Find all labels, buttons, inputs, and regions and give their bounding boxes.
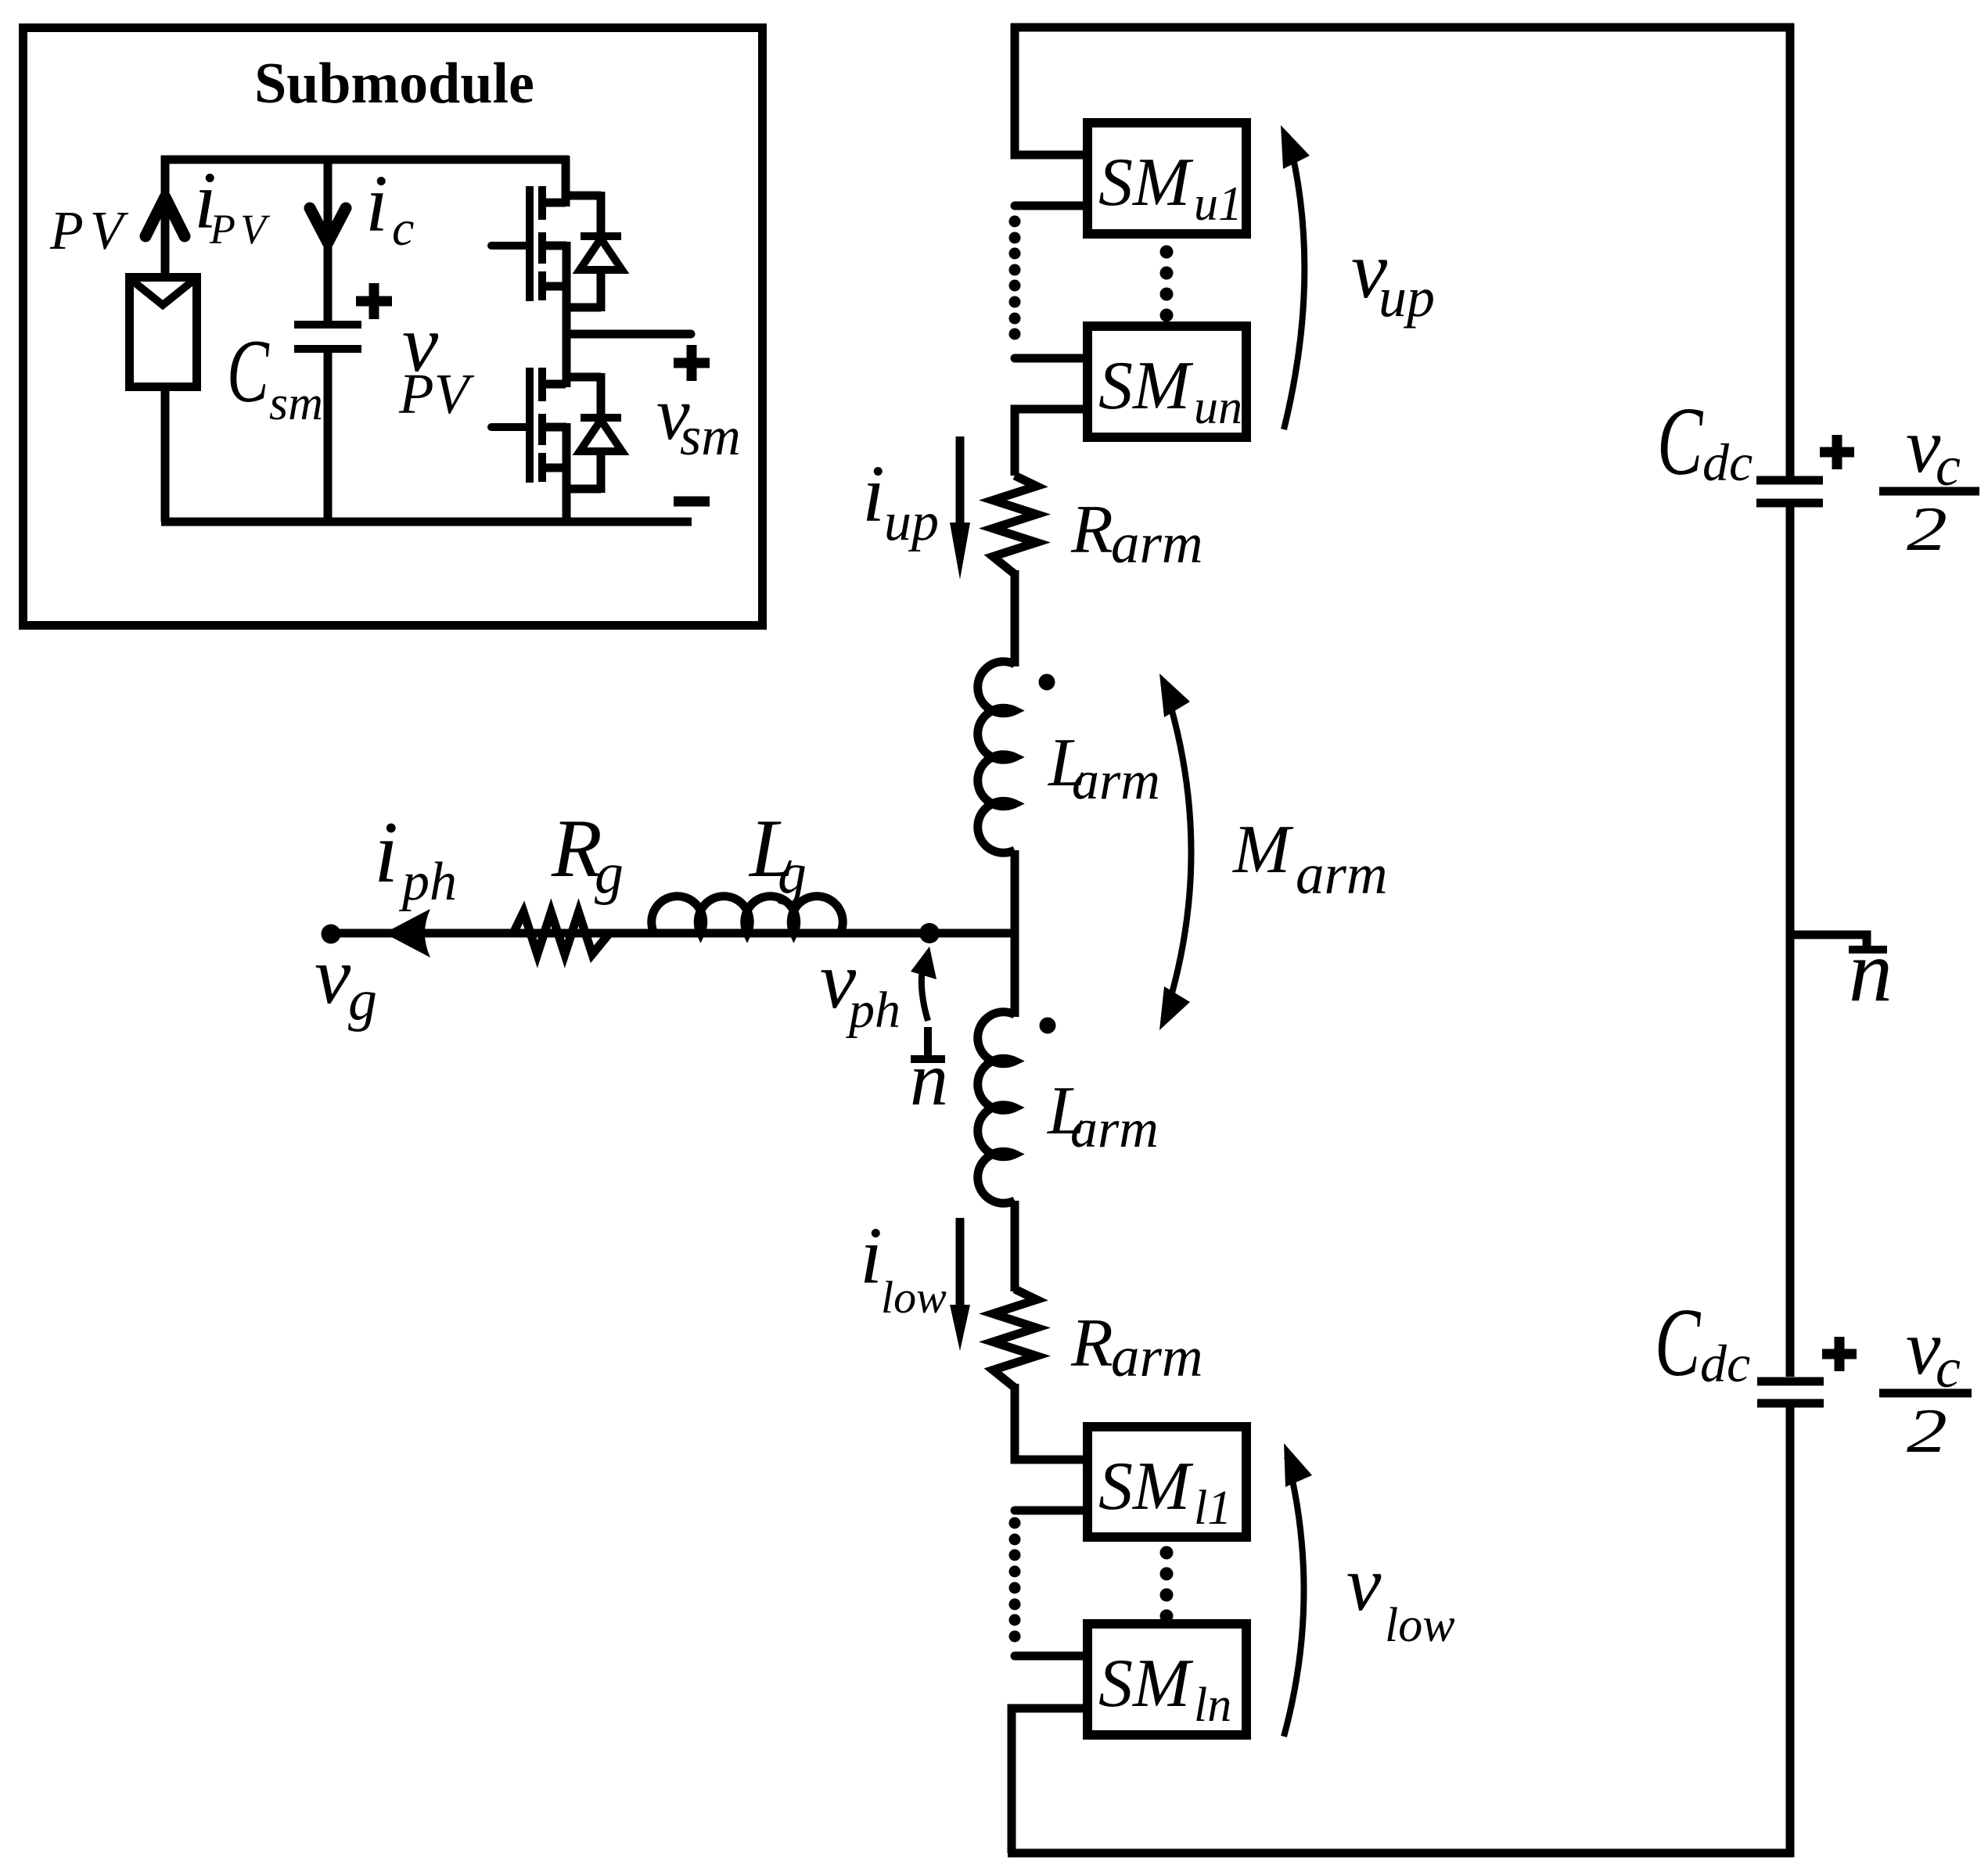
svg-text:n: n [910, 1037, 948, 1122]
wire phase output branch [331, 929, 1019, 938]
arrow i_low [956, 1218, 965, 1330]
wire R_arm lower to SM_l1 [1015, 1384, 1083, 1460]
svg-text:l1: l1 [1194, 1482, 1231, 1535]
node v_g terminal dot [322, 925, 341, 944]
wire bottom DC bus [1008, 1849, 1794, 1858]
dotted wire upper-left column [1009, 216, 1021, 228]
svg-text:arm: arm [1111, 512, 1203, 575]
diode D2 lower body diode [566, 373, 601, 382]
svg-text:Submodule: Submodule [254, 52, 534, 116]
svg-text:v: v [315, 931, 351, 1021]
transistor Q2 lower MOSFET [526, 368, 534, 483]
svg-text:R: R [1070, 1306, 1113, 1381]
resistor R_g [513, 912, 609, 954]
diode D1 upper body diode [566, 192, 601, 200]
PV source box [130, 278, 197, 387]
svg-text:g: g [778, 842, 807, 906]
wire phase node down to L_arm lower [1011, 933, 1019, 1017]
minus sign v_sm [674, 497, 710, 507]
wire from top bus down to SM_u1 [1015, 23, 1083, 155]
svg-text:i: i [860, 1211, 883, 1301]
svg-text:up: up [1379, 266, 1435, 329]
svg-text:low: low [1385, 1599, 1455, 1652]
wire v_sm output tap [566, 330, 691, 339]
inductor L_g [652, 896, 843, 933]
resistor R_arm upper [993, 476, 1037, 574]
svg-text:up: up [884, 492, 939, 552]
dotted wire lower-left column [1009, 1517, 1021, 1529]
svg-text:dc: dc [1702, 433, 1753, 492]
submodule inset box [23, 28, 763, 626]
inductor L_arm lower [978, 1012, 1015, 1204]
svg-text:ph: ph [398, 852, 457, 912]
svg-text:v: v [1346, 1540, 1382, 1627]
wire SM_un lower terminal to R_arm [1015, 409, 1083, 476]
wire L_arm lower to R_arm lower [1011, 1201, 1019, 1291]
svg-text:arm: arm [1296, 842, 1388, 906]
submodule SM_un [1087, 326, 1246, 437]
svg-text:g: g [595, 842, 624, 906]
svg-text:g: g [348, 968, 377, 1033]
svg-text:dc: dc [1700, 1334, 1750, 1393]
svg-text:ln: ln [1194, 1679, 1231, 1732]
capacitor C_dc lower [1757, 1377, 1824, 1386]
wire R_arm to L_arm upper [1011, 570, 1019, 666]
capacitor C_sm [294, 321, 361, 329]
arrow i_PV head [146, 197, 185, 236]
svg-text:C: C [1657, 388, 1703, 496]
svg-text:PV: PV [398, 362, 475, 426]
svg-text:arm: arm [1111, 1325, 1203, 1388]
dots between SM_u1 and SM_un [1160, 246, 1174, 259]
svg-text:i: i [862, 449, 885, 539]
svg-text:ph: ph [846, 982, 901, 1039]
ground n mid symbol [924, 1027, 932, 1056]
svg-text:arm: arm [1070, 1099, 1159, 1159]
wire stub SM_l1 lower terminal [1015, 1507, 1083, 1515]
svg-text:un: un [1194, 381, 1242, 434]
wire top DC bus [1011, 23, 1794, 32]
wire right DC bus middle segment [1786, 507, 1795, 1377]
wire right DC bus lower segment [1786, 1407, 1795, 1857]
wire lower source to bottom rail [563, 489, 571, 522]
resistor R_arm lower [993, 1289, 1037, 1388]
svg-text:SM: SM [1098, 1646, 1194, 1722]
svg-text:C: C [227, 322, 270, 421]
wire PV branch left vertical lower [161, 387, 170, 522]
plus sign v_sm [674, 358, 710, 368]
svg-text:sm: sm [680, 407, 741, 467]
node n stub on right bus [1790, 935, 1867, 946]
svg-text:c: c [392, 200, 414, 256]
wire midpoint vertical [563, 307, 571, 387]
svg-text:sm: sm [269, 377, 323, 430]
plus sign v_PV [356, 296, 392, 307]
wire stub SM_u1 lower terminal [1015, 202, 1083, 210]
svg-text:PV: PV [49, 201, 130, 261]
svg-text:i: i [365, 159, 388, 249]
arrow v_low curved [1284, 1456, 1304, 1737]
svg-text:PV: PV [209, 206, 271, 253]
svg-text:2: 2 [1907, 1396, 1947, 1466]
svg-text:M: M [1231, 812, 1294, 888]
dot polarity mark lower L_arm [1040, 1018, 1056, 1034]
svg-text:2: 2 [1907, 494, 1947, 564]
wire SM_ln lower terminal to bottom bus [1012, 1708, 1083, 1853]
svg-text:SM: SM [1098, 1449, 1194, 1525]
wire inset top rail [161, 156, 569, 164]
svg-text:SM: SM [1098, 145, 1194, 221]
arrow i_c head [310, 208, 346, 242]
submodule SM_ln [1087, 1624, 1246, 1735]
svg-text:u1: u1 [1194, 178, 1242, 231]
transistor Q1 upper MOSFET [526, 186, 534, 301]
node v_ph dot [919, 923, 940, 943]
arrow v_up curved [1284, 141, 1304, 429]
submodule SM_l1 [1087, 1427, 1246, 1537]
svg-text:C: C [1655, 1289, 1701, 1397]
svg-text:low: low [881, 1272, 947, 1323]
submodule SM_u1 [1087, 123, 1246, 234]
wire capacitor C_sm branch upper [324, 160, 333, 321]
svg-text:R: R [1070, 492, 1113, 568]
dot polarity mark upper L_arm [1039, 674, 1055, 691]
wire inset bottom rail [161, 518, 692, 526]
inductor L_arm upper [978, 662, 1015, 853]
svg-text:i: i [374, 804, 398, 901]
arrow v_ph small curved [922, 957, 928, 1021]
arrow i_ph head [385, 910, 430, 957]
plus sign lower C_dc [1822, 1349, 1857, 1359]
svg-text:SM: SM [1098, 348, 1194, 424]
wire right DC bus upper segment [1786, 23, 1795, 476]
dots between SM_l1 and SM_ln [1160, 1546, 1174, 1560]
plus sign upper C_dc [1820, 447, 1854, 458]
svg-text:n: n [1849, 923, 1893, 1020]
wire L_arm upper to phase node [1011, 850, 1019, 937]
wire stub SM_un upper terminal [1015, 354, 1083, 363]
PV box chevron [131, 279, 195, 305]
svg-text:arm: arm [1072, 751, 1160, 811]
capacitor C_dc upper [1756, 476, 1823, 485]
wire PV branch left vertical upper [161, 156, 170, 277]
wire capacitor C_sm branch lower [324, 353, 333, 522]
wire stub SM_ln upper terminal [1015, 1652, 1083, 1661]
arrow M_arm mutual coupling double arrow [1165, 687, 1192, 1017]
arrow i_up [956, 436, 965, 548]
